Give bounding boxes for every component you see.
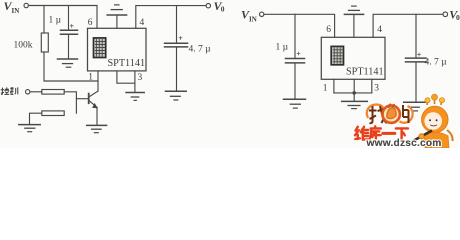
svg-text:100k: 100k	[14, 40, 33, 50]
svg-text:+: +	[296, 49, 301, 58]
svg-text:0: 0	[456, 13, 460, 22]
svg-text:IN: IN	[12, 7, 20, 15]
svg-text:6: 6	[88, 18, 93, 28]
svg-text:IN: IN	[249, 16, 257, 24]
svg-text:6: 6	[326, 25, 331, 35]
svg-text:4. 7 µ: 4. 7 µ	[425, 58, 448, 68]
svg-text:4. 7 µ: 4. 7 µ	[189, 45, 212, 55]
svg-text:+: +	[417, 51, 422, 60]
svg-text:+: +	[178, 34, 183, 43]
svg-text:4: 4	[140, 18, 145, 28]
svg-text:3: 3	[138, 73, 143, 83]
svg-text:+: +	[70, 22, 75, 31]
svg-text:SPT1141: SPT1141	[346, 66, 384, 77]
svg-text:www.dzsc.com: www.dzsc.com	[366, 138, 442, 148]
svg-text:4: 4	[377, 25, 382, 35]
svg-text:SPT1141: SPT1141	[108, 58, 146, 69]
svg-text:0: 0	[221, 5, 225, 14]
svg-text:1 µ: 1 µ	[276, 43, 289, 53]
svg-text:1: 1	[323, 83, 328, 93]
svg-text:3: 3	[374, 83, 379, 93]
svg-text:1: 1	[88, 73, 93, 83]
svg-text:1 µ: 1 µ	[49, 15, 62, 25]
